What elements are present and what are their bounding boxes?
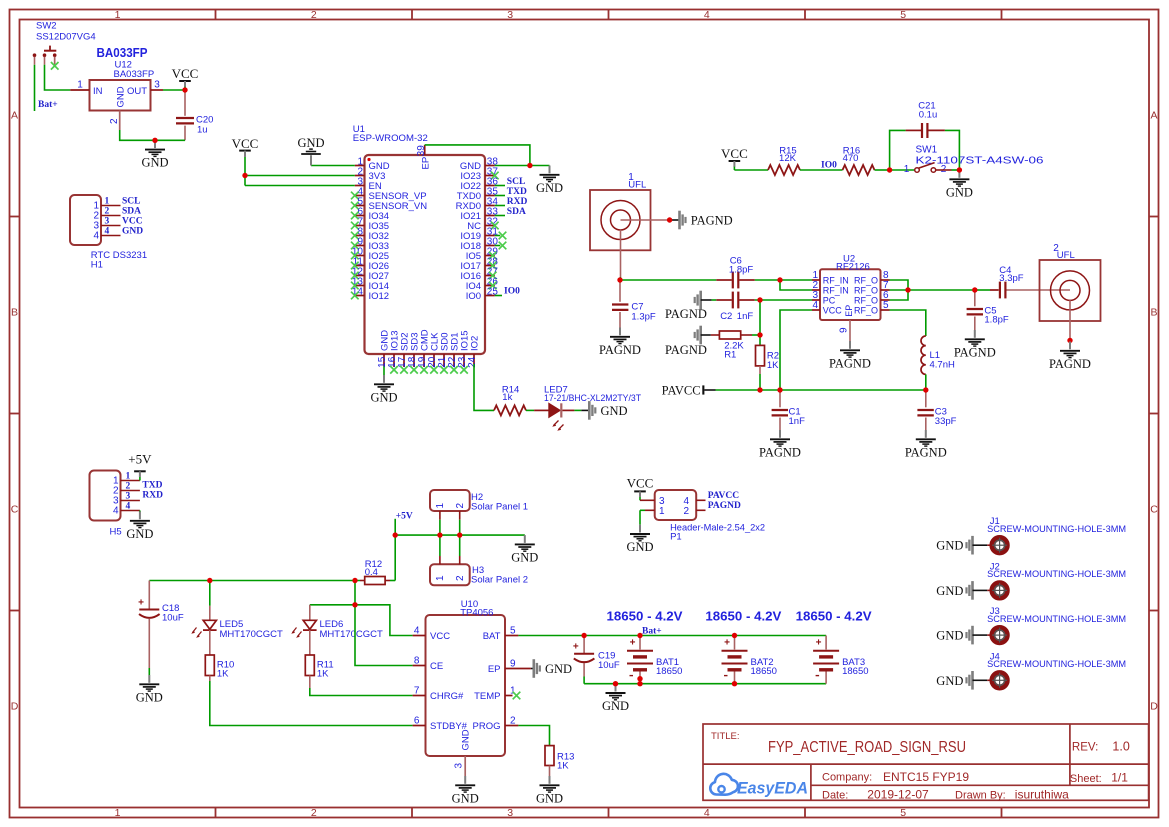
svg-text:SCREW-MOUNTING-HOLE-3MM: SCREW-MOUNTING-HOLE-3MM (987, 524, 1126, 535)
svg-text:RXD: RXD (507, 197, 528, 207)
svg-text:1.0: 1.0 (1112, 740, 1129, 754)
svg-text:UFL: UFL (628, 179, 646, 190)
svg-text:IO12: IO12 (369, 291, 390, 302)
svg-text:GND: GND (511, 550, 538, 564)
svg-text:39: 39 (416, 145, 427, 157)
svg-text:VCC: VCC (430, 631, 450, 642)
svg-text:1.8pF: 1.8pF (984, 315, 1008, 326)
svg-text:1u: 1u (197, 125, 208, 136)
H1 pin 1 (101, 205, 121, 207)
H5 pin 4 (121, 510, 140, 512)
UFL1 center pin to PAGND (621, 219, 670, 221)
RF amplifier U2 RF2126 (820, 253, 881, 320)
svg-text:VCC: VCC (721, 146, 748, 161)
svg-text:1: 1 (904, 164, 910, 175)
junction (757, 387, 762, 392)
net port PAVCC (662, 384, 705, 398)
U1 pin 38 wire (495, 165, 530, 167)
svg-text:MHT170CGCT: MHT170CGCT (320, 629, 384, 640)
resistor R16 (843, 165, 875, 175)
svg-text:MHT170CGCT: MHT170CGCT (220, 629, 284, 640)
wire GND to J1 (973, 544, 988, 546)
wire R15 to R16, net IO0 (800, 169, 843, 171)
svg-text:VCC: VCC (627, 476, 654, 491)
capacitor C1 (772, 390, 805, 430)
battery BAT3 18650 (813, 636, 868, 684)
wire to SW1 pin 1 (890, 169, 915, 171)
svg-text:GND: GND (536, 791, 563, 805)
wire solar rail (395, 534, 525, 536)
svg-text:4: 4 (812, 300, 818, 311)
resistor R11 1K (305, 655, 314, 676)
svg-text:4: 4 (414, 625, 420, 636)
ground flag GND at J4 (967, 671, 973, 690)
junction (437, 532, 442, 537)
svg-text:EP: EP (844, 305, 854, 317)
svg-text:IO2: IO2 (469, 336, 480, 351)
no-connect X pin 4 (351, 192, 359, 200)
wire H5 pin 4 to GND (139, 511, 141, 513)
svg-text:17-21/BHC-XL2M2TY/3T: 17-21/BHC-XL2M2TY/3T (544, 393, 641, 404)
svg-text:GND: GND (626, 540, 653, 554)
svg-text:TXD: TXD (142, 481, 162, 491)
mounting hole J2 SCREW-MOUNTING-HOLE-3MM (936, 561, 1126, 598)
svg-text:PAGND: PAGND (691, 213, 733, 227)
U1 pin 5 SENSOR_VN (355, 205, 365, 207)
svg-text:GND: GND (141, 156, 168, 170)
svg-text:RF2126: RF2126 (836, 261, 870, 272)
svg-text:0.1u: 0.1u (919, 110, 938, 121)
H2 pin 1 (439, 511, 441, 520)
svg-text:REV:: REV: (1072, 742, 1098, 754)
junction (242, 173, 247, 178)
ground flag GND at C18 (136, 675, 163, 704)
svg-text:Solar Panel 1: Solar Panel 1 (471, 501, 528, 512)
IC U1 ESP-WROOM-32 (353, 124, 485, 354)
U2 pin 5 (881, 309, 890, 311)
svg-text:EP: EP (488, 664, 501, 675)
svg-text:GND: GND (601, 404, 628, 418)
svg-text:RF_O: RF_O (854, 295, 878, 305)
svg-text:SCREW-MOUNTING-HOLE-3MM: SCREW-MOUNTING-HOLE-3MM (987, 569, 1126, 580)
wire C2 to U2 pin 3 (755, 299, 812, 301)
svg-text:ENTC15 FYP19: ENTC15 FYP19 (883, 770, 969, 784)
wire VCC to 3V3 (245, 175, 355, 177)
ground flag GND (946, 170, 973, 199)
capacitor C4 (999, 265, 1023, 298)
svg-text:PAGND: PAGND (829, 356, 871, 370)
U1 pin 36 IO22 (485, 185, 495, 187)
svg-text:3: 3 (154, 80, 160, 91)
battery BAT2 18650 (722, 636, 777, 684)
svg-text:D: D (1150, 701, 1158, 713)
svg-text:1k: 1k (502, 392, 512, 403)
svg-text:18650: 18650 (656, 666, 682, 677)
wire VCC to EN (245, 185, 355, 187)
svg-text:R1: R1 (724, 349, 736, 360)
wire U2 pin 8 to output net (890, 280, 909, 290)
U10 pin 6 STDBY# (413, 725, 426, 727)
svg-text:2: 2 (455, 575, 466, 581)
ground flag GND at U10 (452, 776, 479, 805)
no-connect X pin 7 (351, 222, 359, 230)
svg-text:Sheet:: Sheet: (1070, 773, 1102, 785)
svg-text:C2: C2 (720, 311, 732, 322)
U1 pin 22 SD1 (453, 354, 455, 367)
svg-text:PC: PC (823, 295, 836, 305)
power flag VCC at P1 (627, 476, 654, 501)
U2 pin 7 (881, 289, 890, 291)
wire R10 to U10 STDBY# (209, 676, 211, 682)
svg-text:TXD: TXD (507, 187, 527, 197)
charger IC U10 TP4056 (426, 599, 506, 756)
svg-text:GND: GND (126, 527, 153, 541)
LED LED7 17-21/BHC-XL2M2TY/3T (544, 384, 641, 431)
wire C2 node down to R2 (759, 300, 761, 345)
svg-text:Solar Panel 2: Solar Panel 2 (471, 574, 528, 585)
svg-text:RXD: RXD (142, 491, 163, 501)
svg-text:18650: 18650 (842, 666, 868, 677)
no-connect X pin 29 (489, 252, 497, 260)
P1 pin 2 (696, 509, 705, 511)
wire SW2 pin2 to U12 IN (45, 65, 71, 90)
svg-text:isuruthiwa: isuruthiwa (1015, 788, 1069, 802)
svg-text:SDA: SDA (122, 207, 141, 217)
no-connect X pin 30 (499, 242, 507, 250)
junction (777, 387, 782, 392)
U1 pin 10 IO25 (355, 255, 365, 257)
U10 pin 8 CE (413, 665, 426, 667)
junction (887, 167, 892, 172)
wire U2 pin 5 to L1 (890, 310, 926, 336)
wire C4 to UFL2 (1007, 289, 1071, 291)
svg-text:GND: GND (936, 584, 963, 598)
svg-text:PAGND: PAGND (905, 445, 947, 459)
svg-text:EP: EP (420, 157, 431, 170)
wire R14 to LED7 (526, 409, 534, 411)
wire P1 pin 1 to GND (639, 510, 641, 524)
wire BAT+ rail (518, 635, 826, 637)
svg-text:PAGND: PAGND (708, 501, 741, 511)
svg-text:SW2: SW2 (36, 20, 57, 31)
wire +5V down to R12 (394, 519, 396, 581)
svg-text:SW1: SW1 (916, 144, 938, 155)
svg-text:1.3pF: 1.3pF (631, 311, 655, 322)
capacitor C7 (612, 280, 656, 328)
H5 pin 2 (121, 490, 140, 492)
ground flag GND at battery rail (602, 684, 629, 713)
svg-text:A: A (11, 110, 18, 122)
U1 pin 12 IO27 (355, 275, 365, 277)
svg-text:+5V: +5V (396, 511, 413, 521)
junction (732, 633, 737, 638)
H1 pin 4 (101, 235, 121, 237)
svg-text:C: C (11, 504, 19, 516)
no-connect X pin 32 (491, 222, 499, 230)
U1 pin 2 3V3 (355, 175, 365, 177)
svg-text:1K: 1K (557, 760, 569, 771)
resistor R2 1K (756, 345, 765, 366)
U2 pin 3 (812, 299, 820, 301)
U1 pin 7 IO35 (355, 225, 365, 227)
P1 pin 4 (696, 499, 705, 501)
wire R12 to +5V (385, 580, 390, 582)
pin 1 (70, 89, 89, 91)
svg-text:P1: P1 (670, 532, 682, 543)
switch SW2 SS12D07VG4 (33, 20, 96, 65)
svg-text:1/1: 1/1 (1111, 771, 1128, 785)
svg-text:18650 - 4.2V: 18650 - 4.2V (705, 610, 782, 624)
U2 pin 9 EP to PAGND (849, 320, 851, 341)
U10 pin 4 VCC (413, 635, 426, 637)
capacitor C18 10uF (148, 581, 150, 610)
junction (923, 387, 928, 392)
svg-text:CE: CE (430, 661, 443, 672)
svg-text:+: + (816, 637, 822, 648)
H3 pin 1 (439, 556, 441, 564)
U2 pin 4 (812, 309, 820, 311)
ground flag GND at J1 (967, 536, 973, 555)
mounting hole J4 SCREW-MOUNTING-HOLE-3MM (936, 651, 1126, 688)
no-connect X pin 31 (499, 232, 507, 240)
svg-text:GND: GND (602, 699, 629, 713)
U1 pin 14 IO12 (355, 295, 365, 297)
svg-text:9: 9 (510, 658, 516, 669)
svg-text:5: 5 (510, 625, 516, 636)
LED LED5 MHT170CGCT (191, 581, 283, 641)
power flag VCC (172, 66, 199, 90)
svg-text:PAGND: PAGND (954, 345, 996, 359)
U1 pin 16 IO13 (393, 354, 395, 367)
ground flag PAGND at U2 EP (829, 341, 871, 370)
H5 pin 1 (121, 480, 140, 482)
svg-text:2: 2 (684, 506, 690, 517)
wire LED6 to R11 (309, 630, 311, 655)
svg-text:+: + (630, 637, 636, 648)
svg-text:2: 2 (311, 807, 317, 819)
svg-text:SCREW-MOUNTING-HOLE-3MM: SCREW-MOUNTING-HOLE-3MM (987, 614, 1126, 625)
ground flag GND at U1 pin 15 (370, 375, 397, 404)
svg-text:C: C (1150, 504, 1158, 516)
svg-text:H1: H1 (91, 259, 103, 270)
wire to U2 pin 2 (780, 280, 812, 290)
svg-text:8: 8 (414, 655, 420, 666)
capacitor C18 plates (138, 597, 160, 618)
svg-text:GND: GND (370, 390, 397, 404)
wire R1 to R2 node (741, 334, 752, 336)
no-connect X pin 18 (410, 366, 418, 374)
resistor R1 2.2K (719, 331, 740, 339)
wire to C21 left (890, 130, 906, 170)
ground flag PAGND at C1 (759, 430, 801, 459)
svg-text:3.3pF: 3.3pF (999, 273, 1023, 284)
svg-text:4: 4 (113, 506, 119, 517)
svg-text:7: 7 (414, 685, 420, 696)
J3 hole pad (992, 628, 1007, 643)
svg-text:Header-Male-2.54_2x2: Header-Male-2.54_2x2 (670, 523, 765, 534)
connector H2 Solar Panel 1 (430, 490, 528, 512)
wire R2 to PAVCC rail (759, 366, 761, 374)
mounting hole J1 SCREW-MOUNTING-HOLE-3MM (936, 516, 1126, 553)
U1 pin 33 IO21 (485, 215, 495, 217)
svg-text:4: 4 (93, 231, 99, 242)
wire R16 to SW1 (875, 169, 890, 171)
svg-text:TEMP: TEMP (474, 691, 500, 702)
U1 pin 6 IO34 (355, 215, 365, 217)
svg-text:470: 470 (843, 153, 859, 164)
svg-text:4: 4 (126, 502, 131, 512)
svg-text:ESP-WROOM-32: ESP-WROOM-32 (353, 133, 428, 144)
ground flag GND (536, 166, 563, 195)
U1 pin 18 SD3 (413, 354, 415, 367)
svg-text:BAT: BAT (483, 631, 501, 642)
svg-text:VCC: VCC (823, 305, 843, 315)
no-connect X pin 6 (351, 212, 359, 220)
svg-text:33pF: 33pF (935, 416, 957, 427)
junction (182, 87, 187, 92)
wire GND to U1 pin 1 (311, 165, 355, 167)
svg-text:RF_O: RF_O (854, 275, 878, 285)
svg-text:4: 4 (105, 227, 110, 237)
capacitor C5 (967, 290, 1009, 330)
svg-text:D: D (11, 701, 19, 713)
no-connect X pin 20 (430, 366, 438, 374)
svg-text:GND: GND (116, 86, 127, 107)
junction (637, 633, 642, 638)
wire SW1 pin 2 to GND (936, 169, 952, 171)
ground flag GND at J3 (967, 626, 973, 645)
ground flag GND at U10 EP (534, 659, 572, 678)
svg-text:IO0: IO0 (821, 160, 837, 170)
junction (905, 287, 910, 292)
wire R11 to U10 CHRG# (309, 676, 311, 689)
svg-text:2: 2 (126, 482, 131, 492)
ground flag PAGND at C2 (695, 291, 701, 310)
U10 pin 1 TEMP (505, 695, 513, 697)
U2 pin 2 (812, 289, 820, 291)
wire PROG to R13 (518, 726, 549, 746)
svg-text:1: 1 (126, 472, 131, 482)
svg-text:GND: GND (536, 181, 563, 195)
no-connect X on SW2 pin 3 (51, 62, 59, 70)
junction (757, 332, 762, 337)
capacitor C21 (906, 100, 945, 138)
U1 pin 35 TXD0 (485, 195, 495, 197)
junction (637, 681, 642, 686)
no-connect X pin 10 (351, 252, 359, 260)
J2 hole pad (992, 583, 1007, 598)
svg-text:1nF: 1nF (789, 416, 806, 427)
U10 pin 3 GND (464, 756, 466, 776)
U1 pin 25 IO0 (485, 295, 495, 297)
ground flag PAGND at UFL1 (680, 211, 733, 230)
wire UFL1 to C6 (620, 279, 716, 281)
ground flag GND at H5 (126, 512, 153, 541)
svg-text:1K: 1K (767, 360, 779, 371)
wire +5V to CE (355, 581, 413, 666)
svg-text:B: B (11, 307, 18, 319)
U10 pin 5 BAT (505, 635, 518, 637)
wire to CHRG# (310, 688, 413, 696)
no-connect X pin 37 (491, 172, 499, 180)
svg-text:1: 1 (77, 80, 83, 91)
svg-text:Bat+: Bat+ (38, 100, 58, 110)
no-connect X pin 11 (351, 262, 359, 270)
svg-text:GND: GND (946, 185, 973, 199)
no-connect X pin 23 (460, 366, 468, 374)
junction (581, 633, 586, 638)
svg-text:VCC: VCC (172, 66, 199, 81)
wire GND to J2 (973, 589, 988, 591)
ground flag GND at R13 (536, 776, 563, 805)
J1 hole pad (992, 538, 1007, 553)
svg-text:Company:: Company: (822, 772, 872, 784)
wire to STDBY# (210, 681, 413, 726)
svg-text:+: + (573, 642, 579, 653)
wire EP to GND net (425, 145, 530, 166)
svg-text:GND: GND (545, 662, 572, 676)
junction (732, 681, 737, 686)
U1 pin 24 IO2 (473, 354, 475, 364)
U1 pin 29 IO5 (485, 255, 495, 257)
svg-text:VCC: VCC (232, 136, 259, 151)
junction (352, 602, 357, 607)
ground flag PAGND at C5 (954, 330, 996, 359)
H1 pin 2 (101, 215, 121, 217)
no-connect X at TEMP (513, 692, 521, 700)
header H5 (90, 471, 122, 538)
ground flag GND (141, 140, 168, 169)
U1 pin 3 EN (355, 185, 365, 187)
title block (703, 724, 1149, 802)
junction (457, 532, 462, 537)
svg-text:18650: 18650 (751, 666, 777, 677)
svg-text:SCL: SCL (122, 197, 140, 207)
svg-text:RF_IN: RF_IN (823, 275, 849, 285)
no-connect X pin 12 (351, 272, 359, 280)
U1 pin 32 NC (485, 225, 495, 227)
battery BAT1 18650 (627, 636, 682, 684)
svg-text:PAGND: PAGND (599, 343, 641, 357)
svg-text:1: 1 (105, 197, 110, 207)
junction (777, 277, 782, 282)
svg-text:3: 3 (105, 217, 110, 227)
ground flag PAGND at UFL2 (1049, 342, 1091, 371)
svg-text:1nF: 1nF (737, 311, 754, 322)
svg-text:PAGND: PAGND (665, 343, 707, 357)
svg-text:PAGND: PAGND (759, 445, 801, 459)
svg-text:2: 2 (109, 118, 120, 124)
U1 pin 28 IO17 (485, 265, 495, 267)
no-connect X pin 28 (489, 262, 497, 270)
switch SW1 K2-1107ST-A4SW-06 (904, 144, 1044, 175)
svg-text:H5: H5 (110, 527, 122, 538)
U10 pin 9 EP to GND (505, 668, 531, 670)
wire PAVCC rail (704, 389, 715, 391)
pin SW2 pin3 (54, 57, 56, 63)
svg-text:1: 1 (435, 503, 446, 509)
U10 pin 7 CHRG# (413, 695, 426, 697)
wire R13 to GND (549, 766, 551, 777)
svg-text:GND: GND (136, 690, 163, 704)
U1 pin 4 SENSOR_VP (355, 195, 365, 197)
wire rail to U2 VCC pin 4 (780, 310, 812, 390)
U10 pin 2 PROG (505, 725, 518, 727)
svg-text:PAVCC: PAVCC (662, 384, 701, 398)
resistor R10 1K (205, 655, 214, 676)
junction (152, 138, 157, 143)
wire GND to J4 (973, 679, 988, 681)
